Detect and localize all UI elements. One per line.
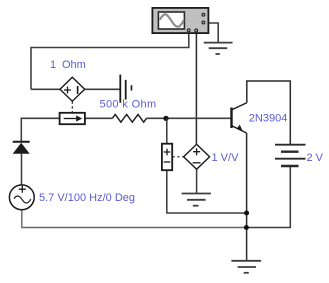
ground G3 (bottom) <box>231 261 261 273</box>
wire CCVS right terminal to capacitor <box>85 88 120 90</box>
svg-text:500 k Ohm: 500 k Ohm <box>100 99 157 111</box>
dashed link CCVS to probe box <box>71 102 73 113</box>
capacitor / polarized plates <box>120 75 131 103</box>
battery V2 <box>275 145 306 166</box>
node dot1 junction <box>244 211 249 216</box>
svg-text:2N3904: 2N3904 <box>249 113 288 125</box>
wire diode to current-probe box <box>21 118 59 142</box>
node dot2 junction <box>244 225 249 230</box>
sense box (+/-) <box>162 144 172 171</box>
CCVS V1 diamond (+ |) <box>60 77 85 101</box>
wire node A down to sense box <box>166 118 168 143</box>
ground G1 (scope) <box>204 43 233 54</box>
svg-text:2 V: 2 V <box>307 152 324 164</box>
wire AC source top to diode anode <box>21 154 23 185</box>
wire probe box to resistor <box>85 117 113 119</box>
wire resistor to transistor base <box>147 117 232 119</box>
wire bottom rail from AC source to node dot2 <box>22 210 247 228</box>
wire battery bottom to node dot2 <box>246 166 290 228</box>
svg-text:Ohm: Ohm <box>62 59 86 71</box>
wire scope terminal A to left loop <box>31 31 189 89</box>
wire emitter down through dot1 and dot2 to ground G3 <box>246 133 248 261</box>
wire VCVS bottom to ground G2 <box>196 169 198 193</box>
wire collector loop to battery top <box>247 81 290 145</box>
wire sense box bottom to node dot1 <box>167 170 247 213</box>
dashed link sense box to VCVS <box>173 156 184 158</box>
AC source V3 <box>9 185 34 210</box>
oscilloscope XSC1 <box>152 8 208 33</box>
wire left loop to CCVS left terminal <box>31 88 60 90</box>
svg-text:5.7 V/100 Hz/0 Deg: 5.7 V/100 Hz/0 Deg <box>39 192 135 204</box>
svg-text:1: 1 <box>50 59 56 71</box>
svg-text:1 V/V: 1 V/V <box>212 152 240 164</box>
wire scope right terminal to ground G1 <box>204 23 218 42</box>
diode D1 <box>13 142 30 154</box>
resistor R1 zigzag <box>112 114 146 122</box>
VCVS diamond (1 V/V) <box>184 144 210 169</box>
node A junction dot <box>163 116 168 121</box>
ground G2 (VCVS) <box>182 194 211 206</box>
transistor Q1 2N3904 <box>232 103 247 133</box>
current probe box (arrow) <box>60 113 85 124</box>
wire scope terminal B down to VCVS top <box>195 31 197 144</box>
